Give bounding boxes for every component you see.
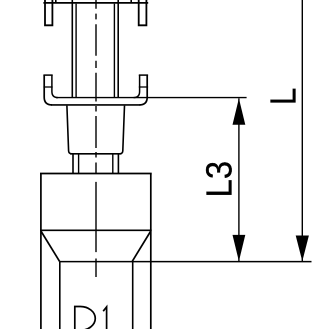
cone right slant	[132, 231, 151, 261]
washer right ear parting line	[139, 86, 148, 88]
knob facet edge left	[55, 0, 57, 3]
arrowhead L3 bottom	[233, 235, 246, 261]
pad left side	[59, 262, 61, 329]
arrowhead L bottom	[296, 236, 309, 262]
pad right side	[132, 262, 134, 329]
washer outer bottom edge	[51, 104, 140, 106]
knob facet edge right	[130, 0, 132, 3]
washer right ear outer edge	[139, 75, 147, 105]
washer left ear parting line	[43, 86, 52, 88]
body left side	[40, 174, 42, 329]
spindle thread crest right	[117, 0, 119, 98]
washer left ear outer edge	[44, 75, 52, 105]
washer right ear inner edge	[134, 75, 140, 98]
neck thread crest left	[72, 154, 74, 174]
washer right ear top	[139, 74, 148, 76]
spindle thread root left	[75, 4, 77, 98]
dimension line L	[301, 0, 303, 261]
neck thread root left	[78, 154, 80, 174]
knob bottom edge	[43, 2, 148, 4]
svg-text:L3: L3	[200, 161, 240, 197]
washer left ear inner edge	[52, 75, 58, 98]
neck thread crest right	[117, 154, 119, 174]
svg-text:L: L	[263, 88, 304, 105]
washer inner bottom edge and L3 extension line	[56, 97, 247, 99]
washer left ear top	[43, 74, 52, 76]
bushing right side	[120, 106, 125, 154]
body right side	[150, 174, 152, 329]
bushing left side	[67, 106, 72, 154]
neck thread root right	[112, 154, 114, 174]
label D1 letter D	[75, 307, 95, 329]
bushing bottom shoulder	[70, 153, 121, 155]
cone left slant	[41, 231, 60, 261]
dimension line L3	[238, 98, 240, 261]
centerline	[95, 0, 97, 277]
body shoulder edge	[40, 229, 152, 231]
label D1 digit 1	[103, 307, 106, 329]
arrowhead L3 top	[233, 98, 246, 124]
knob right prong	[138, 0, 148, 25]
body top edge	[40, 173, 152, 175]
spindle thread root right	[113, 4, 115, 98]
cone bottom edge and bottom extension line	[60, 261, 312, 263]
spindle thread crest left	[71, 0, 73, 98]
knob left prong	[44, 0, 53, 25]
